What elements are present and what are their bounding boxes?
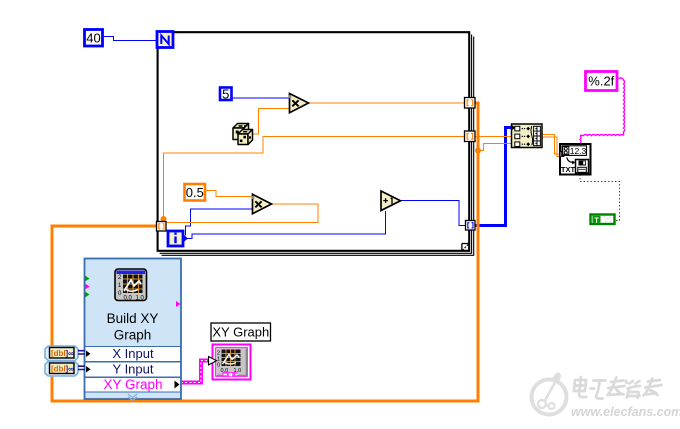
increment U3 [381, 191, 401, 211]
i iteration terminal [168, 231, 188, 246]
node A junction dot [161, 216, 167, 222]
wire node B to Build Array lower input [478, 144, 512, 151]
svg-text:TXT: TXT [561, 165, 576, 174]
svg-text:0.5: 0.5 [186, 185, 204, 200]
express VI output arrow [175, 381, 180, 389]
svg-text:XY Graph: XY Graph [103, 377, 162, 392]
for-loop stacked border line 2 [160, 35, 472, 254]
string constant %.2f [586, 72, 618, 91]
XY Graph label [211, 323, 271, 341]
XY Graph terminal indicator [209, 345, 251, 380]
N count terminal [157, 32, 173, 48]
wire 40 to N [104, 37, 157, 41]
wire 5 to multiply U1 [233, 97, 290, 99]
dynamic data converter D2 [45, 362, 85, 377]
svg-text:Y Input: Y Input [113, 362, 154, 377]
random number dice [233, 124, 253, 145]
svg-text:1.0: 1.0 [136, 296, 145, 302]
dynamic data converter D1 [45, 346, 85, 361]
svg-text:X Input: X Input [112, 346, 154, 361]
svg-text:]∞: ]∞ [66, 365, 75, 374]
svg-text:40: 40 [86, 31, 100, 46]
wire boolean T to Write node (green dotted) [580, 175, 620, 221]
for-loop border [158, 32, 470, 251]
svg-text:XY Graph: XY Graph [212, 325, 269, 340]
tunnel T3 (left orange) [157, 222, 167, 232]
for-loop fold corner [462, 244, 469, 251]
wire dice to multiply U1 [252, 109, 289, 135]
numeric constant 40 [85, 30, 103, 47]
Build XY Graph express VI [85, 259, 182, 401]
tunnel T2 (orange array out) [465, 131, 476, 142]
wire outer orange loop from left tunnel around bottom to tunnel T1 (thick array wire) [52, 103, 478, 401]
for-loop stacked border line 3 [162, 37, 474, 256]
Write To Spreadsheet File node U5 [560, 144, 591, 175]
svg-text:0.0: 0.0 [124, 296, 133, 302]
tunnel T4 (blue array out) [466, 221, 476, 231]
wire multiply U2 out to node A [164, 204, 319, 223]
wire i to increment U3 [188, 211, 386, 239]
numeric constant 5 [220, 87, 232, 102]
wire increment U3 to blue tunnel [400, 201, 466, 226]
svg-text:[dbl: [dbl [51, 365, 66, 374]
express VI chevron [128, 394, 137, 400]
wire node A to tunnel T2 and Build Array [164, 137, 513, 227]
svg-text:[dbl: [dbl [51, 349, 66, 358]
numeric constant 0.5 [185, 184, 206, 201]
svg-text:Build XY: Build XY [107, 311, 159, 326]
svg-text:5: 5 [222, 87, 229, 102]
svg-text:T: T [594, 215, 599, 224]
express VI rows [85, 347, 181, 393]
multiply U1 [288, 94, 308, 113]
svg-text:12.3: 12.3 [570, 146, 587, 156]
svg-text:Graph: Graph [114, 328, 152, 343]
express VI input arrows [86, 351, 91, 358]
Build Array node U4 [512, 124, 543, 148]
express VI edge arrows [85, 276, 90, 282]
wire blue array tunnel to Build Array (thick) [474, 128, 512, 226]
watermark text 电子发烧友 [573, 377, 662, 399]
express VI icon (mini XY graph) [115, 269, 147, 302]
boolean constant T [591, 215, 615, 225]
wire string %.2f to Write node (wavy pink) [580, 78, 625, 144]
wire cluster XY Graph output to terminal (pink hatched) [181, 361, 209, 383]
wire Build Array 2D output to Write node (double line) [542, 135, 560, 155]
watermark logo circle [532, 371, 567, 414]
node B junction dot on outer wire [475, 148, 481, 154]
svg-text:%.2f: %.2f [588, 74, 614, 89]
wire i to multiply U2 [186, 209, 253, 236]
wire 0.5 to multiply U2 [206, 191, 253, 197]
svg-text:www.elecfans.com: www.elecfans.com [571, 405, 680, 419]
multiply U2 [251, 194, 271, 213]
tunnel T1 (orange array out) [465, 98, 476, 109]
wire multiply U1 to tunnel T1 [308, 102, 465, 104]
svg-text:]∞: ]∞ [66, 349, 75, 358]
